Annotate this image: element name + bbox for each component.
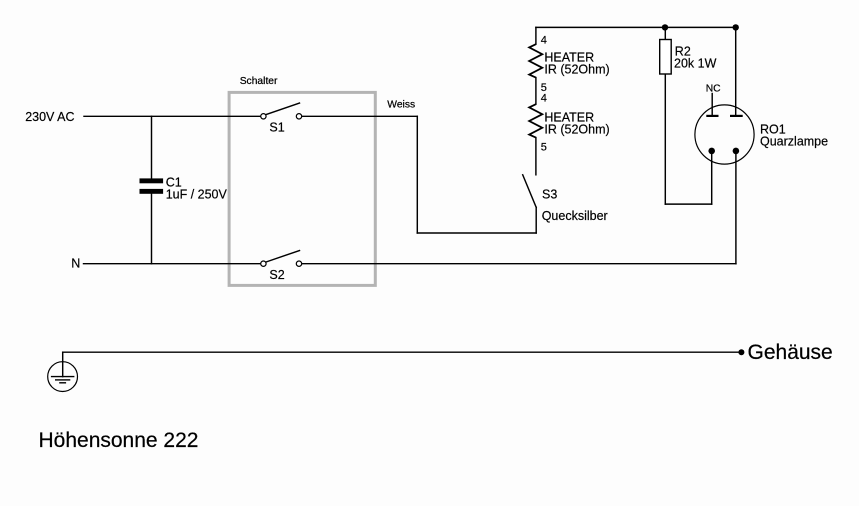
svg-text:4: 4 bbox=[541, 92, 547, 104]
svg-text:Gehäuse: Gehäuse bbox=[748, 341, 833, 364]
svg-text:Schalter: Schalter bbox=[240, 76, 278, 87]
svg-text:Weiss: Weiss bbox=[387, 100, 415, 111]
svg-text:4: 4 bbox=[541, 35, 547, 47]
svg-text:Höhensonne 222: Höhensonne 222 bbox=[39, 429, 199, 452]
svg-text:Quarzlampe: Quarzlampe bbox=[760, 134, 828, 148]
svg-text:IR (52Ohm): IR (52Ohm) bbox=[544, 122, 609, 136]
svg-text:Quecksilber: Quecksilber bbox=[542, 209, 608, 223]
svg-text:5: 5 bbox=[541, 141, 547, 153]
svg-text:N: N bbox=[71, 257, 80, 271]
svg-text:S2: S2 bbox=[269, 268, 284, 282]
svg-text:NC: NC bbox=[706, 84, 721, 95]
svg-text:S3: S3 bbox=[542, 187, 557, 201]
svg-text:1uF / 250V: 1uF / 250V bbox=[166, 187, 228, 201]
svg-text:20k 1W: 20k 1W bbox=[674, 56, 717, 70]
svg-text:IR (52Ohm): IR (52Ohm) bbox=[544, 63, 609, 77]
svg-text:230V AC: 230V AC bbox=[25, 110, 74, 124]
svg-text:S1: S1 bbox=[269, 121, 284, 135]
